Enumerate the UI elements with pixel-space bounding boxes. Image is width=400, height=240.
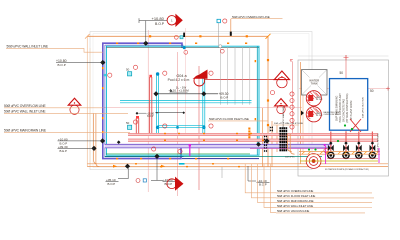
interior cyan pipe vertical pair left xyxy=(157,74,159,134)
bottom-left level marker 2 xyxy=(58,145,95,153)
pool center pennant xyxy=(193,70,208,86)
purple band xyxy=(105,144,333,148)
legend row 1 xyxy=(276,189,372,193)
pool basin inner blue line xyxy=(105,45,184,157)
svg-text:B.O.P: B.O.P xyxy=(259,182,267,186)
centerline vertical V1 xyxy=(147,30,149,192)
svg-text:FILTRATION PUMPS (BY MAIN CONT: FILTRATION PUMPS (BY MAIN CONTRACTOR) xyxy=(325,168,369,171)
svg-text:(BY MAIN CONTRACTOR): (BY MAIN CONTRACTOR) xyxy=(346,93,349,122)
site boundary rect xyxy=(90,32,312,170)
overflow loop left vertical xyxy=(86,36,88,166)
magenta pipe plant xyxy=(325,146,327,164)
svg-text:50Ø uPVC RETURN: 50Ø uPVC RETURN xyxy=(378,133,380,152)
plant CL top tick xyxy=(344,55,349,60)
overflow loop corner tick TL xyxy=(85,34,90,39)
wall inlet tick left xyxy=(104,74,106,76)
svg-text:50Ø uPVC MAIN DRAIN LINE: 50Ø uPVC MAIN DRAIN LINE xyxy=(4,129,47,133)
legend leader 3 xyxy=(258,164,276,203)
orange square markers on loop xyxy=(149,35,269,126)
svg-text:B.O.P: B.O.P xyxy=(155,22,165,26)
filtration plant blue rect xyxy=(330,79,368,131)
bottom wall continuation xyxy=(182,158,259,160)
orange bottom line 2 xyxy=(87,166,388,168)
sand filter F1 xyxy=(306,91,323,106)
interior cyan pipe horizontal pair xyxy=(120,101,252,103)
orange ticks on pool walls xyxy=(102,43,256,160)
left label L2 overflow xyxy=(4,104,103,108)
pump P1 xyxy=(328,132,334,159)
svg-text:50Ø uPVC WALL INLET LINE: 50Ø uPVC WALL INLET LINE xyxy=(4,110,46,114)
svg-text:50Ø uPVC SUCTION: 50Ø uPVC SUCTION xyxy=(363,97,365,118)
plant feed verticals xyxy=(300,62,302,164)
pump P2 xyxy=(343,132,349,159)
centerline vertical V5 plant CL xyxy=(345,55,347,132)
orange bottom line 1 xyxy=(87,163,388,165)
overflow loop top line xyxy=(87,35,268,37)
top level marker lines xyxy=(145,21,147,44)
plant CL right tick xyxy=(386,87,390,91)
main drain black line xyxy=(156,93,218,95)
floor inlet dot 4 xyxy=(202,126,205,129)
bottom-left level marker 1 xyxy=(58,138,103,146)
svg-text:50Ø uPVC MAIN DRAIN: 50Ø uPVC MAIN DRAIN xyxy=(282,106,285,128)
floor inlet dot 5 xyxy=(176,126,179,129)
svg-text:B.O.P: B.O.P xyxy=(58,63,66,67)
valve stack bowties xyxy=(279,127,287,151)
svg-text:50: 50 xyxy=(340,71,344,75)
floor inlet label xyxy=(208,117,268,121)
pump P4 xyxy=(369,132,375,159)
cyan square fitting wall inlet bottom xyxy=(128,125,132,129)
right orange verticals xyxy=(262,108,264,167)
left label L3 wall inlet xyxy=(4,110,128,114)
red line under pumps xyxy=(327,158,378,160)
svg-text:B.O.P: B.O.P xyxy=(147,116,154,118)
centerline vertical pink faint xyxy=(185,28,187,135)
marker A circ + square xyxy=(136,179,140,183)
svg-text:FILTER: FILTER xyxy=(316,115,323,117)
legend leader 1 xyxy=(245,164,276,193)
overflow loop left vertical 2 xyxy=(89,48,91,166)
cyan segment on bottom xyxy=(179,163,185,165)
green dots xyxy=(308,124,353,150)
centerline vertical V4 xyxy=(292,62,294,133)
orange label above valve stack xyxy=(273,122,304,125)
heat pump circle xyxy=(306,154,321,169)
centerline vertical V3 xyxy=(198,66,200,190)
orange dashes on pink band xyxy=(135,133,264,167)
pool right channel cyan xyxy=(256,46,258,155)
centerline horizontal plant xyxy=(299,88,389,90)
svg-text:FILTER: FILTER xyxy=(316,99,323,101)
red circled tags xyxy=(108,19,328,154)
olive line xyxy=(300,160,378,162)
green line xyxy=(106,153,250,155)
orange feeders to plant manifold xyxy=(288,134,292,152)
red riser cap xyxy=(149,75,152,78)
interior cyan pipe vertical pair right xyxy=(203,74,205,134)
black diamond fittings xyxy=(91,41,269,169)
top-left level marker xyxy=(56,59,103,67)
sand filter F2 xyxy=(306,107,323,122)
stairs lines xyxy=(220,47,249,105)
legend row 2 xyxy=(276,194,374,198)
bottom marker B xyxy=(151,158,176,186)
centerline vertical V2 pool CL xyxy=(177,52,179,196)
svg-text:B.O.P: B.O.P xyxy=(108,182,116,186)
magenta connector mid xyxy=(189,146,191,157)
red riser 2 xyxy=(135,118,137,134)
top pennant marker xyxy=(167,14,183,27)
svg-text:50: 50 xyxy=(126,121,130,125)
legend leader 5 xyxy=(270,164,276,212)
legend row 3 xyxy=(276,199,372,203)
small level marker mid pool xyxy=(136,112,139,115)
svg-text:50: 50 xyxy=(126,68,130,72)
red line between wall markers xyxy=(205,78,275,80)
svg-text:B.E.P: B.E.P xyxy=(60,149,67,153)
left label L1 wall inlet xyxy=(6,45,103,53)
svg-text:B.O.P: B.O.P xyxy=(165,182,173,186)
svg-text:50Ø uPVC WALL INLET LINE: 50Ø uPVC WALL INLET LINE xyxy=(7,45,49,49)
valve stack 2 xyxy=(264,135,267,138)
skimmer square xyxy=(217,19,220,22)
legend leader 4 xyxy=(264,164,276,207)
red riser pipe pair xyxy=(150,77,152,134)
inlet valve triangle plant xyxy=(301,111,304,116)
red cross diagonals under blue rect xyxy=(350,119,361,132)
dim line x222 xyxy=(221,167,223,178)
svg-text:50: 50 xyxy=(370,89,374,93)
water tank square xyxy=(302,70,328,96)
legend row 4 xyxy=(276,204,372,208)
shallow zone cyan boundary xyxy=(106,46,259,155)
overflow valve black xyxy=(230,32,232,36)
svg-text:+10.80: +10.80 xyxy=(152,16,165,21)
cyan square fitting wall inlet top xyxy=(128,72,132,76)
orange flow arrows bottom xyxy=(113,165,117,168)
pink band pair 1 xyxy=(128,133,378,135)
orange hatched manifold xyxy=(299,152,380,155)
bottom right marker xyxy=(248,166,270,186)
loop top fittings xyxy=(174,33,224,55)
floor inlet dot 2 xyxy=(202,72,205,75)
overflow label drop line xyxy=(230,19,232,36)
wall inlet left verticals xyxy=(94,113,98,163)
wall triangle marker right lower xyxy=(275,99,288,114)
overflow loop corner tick xyxy=(266,34,271,39)
skimmer drop line xyxy=(218,23,220,47)
wall triangle marker left xyxy=(68,98,81,114)
pump P3 xyxy=(356,132,362,159)
orange squares column x250 xyxy=(248,128,250,139)
floor inlet dot 3 xyxy=(156,126,159,129)
svg-text:OVERFLOW LINE: OVERFLOW LINE xyxy=(324,114,340,116)
overflow loop right vertical xyxy=(267,36,269,166)
svg-text:Pool 4.2 x 6 m: Pool 4.2 x 6 m xyxy=(168,78,190,82)
pink band pair 2 xyxy=(128,139,378,141)
plant room boundary rect xyxy=(298,56,389,176)
magenta line corridor xyxy=(250,148,326,150)
pool basin wall purple xyxy=(103,43,182,158)
svg-text:50Ø uPVC: 50Ø uPVC xyxy=(285,157,295,159)
svg-text:B.O.P: B.O.P xyxy=(221,95,229,99)
top overflow label xyxy=(231,15,283,19)
cyan vacuum pair between risers xyxy=(158,124,205,126)
svg-text:50Ø uPVC OVERFLOW LINE: 50Ø uPVC OVERFLOW LINE xyxy=(4,104,46,108)
diamond on purple band xyxy=(117,140,121,144)
centerline horizontal pool xyxy=(104,107,302,109)
dark ledge line xyxy=(106,47,259,49)
legend row 5 xyxy=(276,209,365,213)
teal main drain line xyxy=(105,155,323,157)
floor inlet dot 1 xyxy=(156,72,159,75)
bottom pennant marker xyxy=(167,177,184,191)
svg-text:50Ø uPVC FLOOR INLET LINE: 50Ø uPVC FLOOR INLET LINE xyxy=(209,117,249,121)
svg-text:W/ PLANT ROOM: W/ PLANT ROOM xyxy=(350,101,353,120)
legend leader 2 xyxy=(251,164,276,198)
svg-text:TANK: TANK xyxy=(311,82,318,86)
bottom marker A xyxy=(106,168,129,186)
wall triangle marker right upper xyxy=(274,71,289,88)
pool info text xyxy=(168,74,190,93)
left label L4 main drain xyxy=(4,129,130,133)
drain stub line mid pool xyxy=(158,112,184,114)
